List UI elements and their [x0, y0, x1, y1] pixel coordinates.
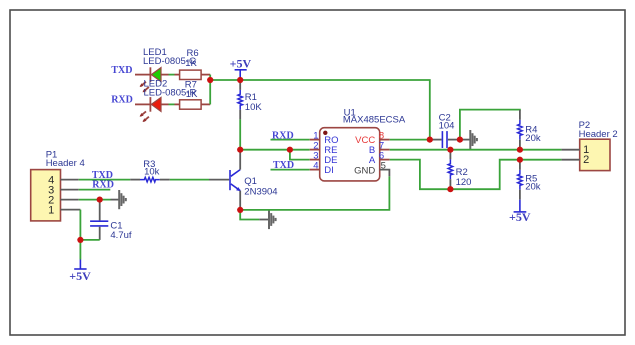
resistor R2 120: [448, 150, 471, 190]
svg-text:20k: 20k: [525, 182, 541, 193]
wire P1.1 down: [80, 210, 99, 240]
wire R1 to row2: [239, 119, 241, 149]
wire emitter to U1 pin5: [240, 176, 389, 210]
ground (C2): [470, 130, 477, 149]
resistor R1 10K: [238, 80, 262, 119]
wire C2 up rail to R4: [460, 110, 520, 140]
wire pin8 VCC: [390, 139, 430, 141]
svg-text:Header 4: Header 4: [46, 158, 85, 169]
wire TXD to LED1: [135, 74, 150, 76]
net label TXD (P1): [92, 170, 113, 181]
svg-text:RXD: RXD: [92, 179, 114, 190]
svg-text:GND: GND: [354, 165, 375, 176]
wire emitter to ground: [240, 210, 269, 220]
wire row2 to RE: [240, 149, 310, 151]
connector P2 Header 2: [561, 120, 617, 170]
junction +5V rail: [237, 77, 243, 83]
IC U1 MAX485ECSA: [310, 108, 406, 181]
net label TXD (LED1): [111, 65, 132, 76]
wire LED1 to R6: [169, 74, 175, 76]
junction RE/DE: [287, 147, 293, 153]
svg-text:+5V: +5V: [230, 56, 252, 70]
junction R5 top: [517, 157, 523, 163]
junction R2 top: [447, 147, 453, 153]
wire LED2 to R7: [169, 103, 175, 105]
net label TXD (U1): [273, 160, 294, 171]
capacitor C2 104: [430, 113, 460, 148]
svg-text:Header 2: Header 2: [579, 129, 618, 140]
junction C2 left: [427, 137, 433, 143]
junction emitter: [237, 207, 243, 213]
svg-text:MAX485ECSA: MAX485ECSA: [343, 115, 406, 126]
wire A net: [390, 160, 562, 190]
svg-text:2: 2: [583, 154, 589, 166]
svg-text:5: 5: [381, 161, 386, 172]
wire C2 to ground: [460, 139, 470, 141]
wire RXD to pin1: [271, 139, 310, 141]
svg-text:120: 120: [456, 177, 472, 188]
svg-text:DI: DI: [324, 165, 334, 176]
svg-text:1K: 1K: [185, 58, 197, 69]
wire +5V rail top: [210, 80, 430, 140]
svg-text:+5V: +5V: [69, 269, 91, 283]
svg-text:4.7uf: 4.7uf: [110, 230, 131, 241]
svg-text:A: A: [369, 155, 376, 166]
wire RXD to LED2: [135, 103, 150, 105]
connector P1 Header 4: [31, 149, 85, 221]
power +5V (R5): [509, 200, 531, 224]
svg-text:20k: 20k: [525, 133, 541, 144]
resistor R5 20k: [518, 160, 541, 200]
svg-text:2N3904: 2N3904: [244, 187, 277, 198]
junction collector/R1: [237, 147, 243, 153]
ground (P1.2): [119, 190, 126, 209]
power +5V bottom: [69, 240, 91, 283]
LED LED1: [140, 47, 197, 93]
ground (Q1 emitter): [269, 210, 276, 229]
wire R3 to Q1 base: [170, 179, 209, 181]
svg-text:TXD: TXD: [111, 65, 132, 76]
svg-text:Q1: Q1: [244, 176, 257, 187]
capacitor C1 4.7uf: [90, 200, 132, 241]
wire P1.2 to ground: [79, 199, 120, 201]
svg-text:4: 4: [313, 161, 318, 172]
junction R4 bottom: [517, 147, 523, 153]
svg-text:+5V: +5V: [509, 210, 531, 224]
resistor R3 10k: [130, 159, 170, 182]
svg-text:RXD: RXD: [111, 94, 133, 105]
net label RXD (U1): [272, 130, 294, 141]
net label RXD (LED2): [111, 94, 133, 105]
junction R6/R7 rail: [207, 77, 213, 83]
wire junction to DE: [290, 150, 310, 160]
wire R6 to rail: [209, 75, 211, 80]
net label RXD (P1): [92, 179, 114, 190]
junction C2 right: [457, 137, 463, 143]
svg-text:1: 1: [48, 204, 54, 216]
junction P1.2/C1: [97, 197, 103, 203]
resistor R4 20k: [518, 110, 541, 150]
junction +5V bottom: [77, 237, 83, 243]
LED LED2: [140, 78, 197, 122]
resistor R7 1K: [175, 79, 211, 109]
power +5V top: [230, 56, 252, 80]
svg-text:10k: 10k: [144, 167, 160, 178]
junction R2 bottom: [447, 186, 453, 192]
svg-text:1K: 1K: [186, 89, 198, 100]
svg-text:10K: 10K: [245, 102, 263, 113]
resistor R6 1K: [175, 48, 211, 80]
wire TXD to pin4: [271, 169, 310, 171]
wire B row: [390, 149, 562, 151]
wire R7 up to rail: [209, 80, 211, 104]
wire P1.4 to R3: [79, 179, 131, 181]
svg-text:104: 104: [439, 121, 455, 132]
transistor Q1 2N3904: [209, 150, 278, 210]
wire P1.3 RXD stub: [79, 189, 111, 191]
